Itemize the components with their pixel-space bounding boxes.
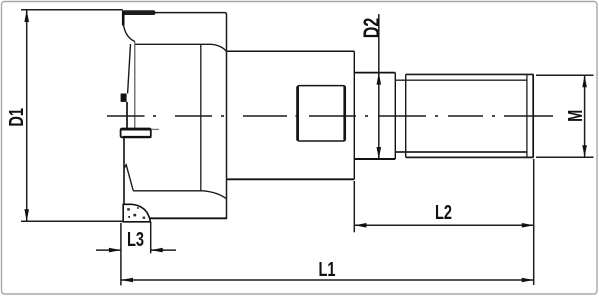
svg-text:L1: L1 [318,258,335,281]
svg-text:D2: D2 [361,18,385,39]
svg-text:L3: L3 [127,228,144,251]
svg-text:D1: D1 [5,108,28,127]
svg-text:M: M [564,110,587,122]
svg-text:L2: L2 [435,201,452,224]
